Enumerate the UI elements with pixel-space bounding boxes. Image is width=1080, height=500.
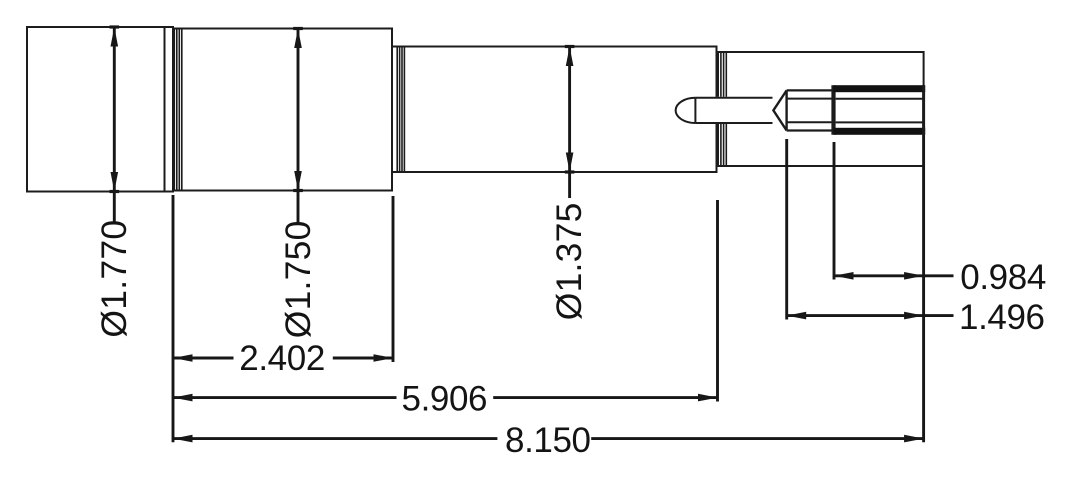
ridge lines at section 2/3 transition <box>397 47 404 173</box>
svg-text:2.402: 2.402 <box>239 339 325 378</box>
dim O1.770 vertical line <box>113 27 116 223</box>
dim 0.984 line <box>834 274 954 277</box>
dim 8.150 left arrowhead <box>173 435 193 443</box>
dim O1.750 top arrowhead <box>294 29 302 49</box>
dim 5.906 line segments <box>173 396 397 399</box>
dim O1.375 top arrowhead <box>566 47 574 67</box>
dim 8.150 line segments <box>173 437 497 440</box>
thread section shoulder (thick vertical) <box>831 85 835 135</box>
thread major diameter top band (thick) <box>834 85 926 92</box>
svg-text:Ø1.770: Ø1.770 <box>94 220 134 338</box>
svg-text:5.906: 5.906 <box>402 379 488 418</box>
pin body (small shaft with round cap) <box>695 98 772 123</box>
dim 2.402 left arrowhead <box>173 354 193 362</box>
extension line at x=786.7 (1.496 left) <box>785 139 788 320</box>
dim O1.375 apex ticks <box>565 45 575 48</box>
svg-text:8.150: 8.150 <box>505 421 591 460</box>
extension line at x=393 (2.402 right) <box>392 196 395 362</box>
dim O1.770 bottom arrowhead <box>111 172 119 192</box>
svg-text:Ø1.750: Ø1.750 <box>278 220 318 338</box>
body section 3 (cylinder O1.375) <box>392 47 717 173</box>
body section 4 (right cylinder) <box>717 52 924 166</box>
thread minor diameter lower line <box>836 121 924 123</box>
dim O1.750 bottom arrowhead <box>294 171 302 191</box>
dim O1.750 apex ticks <box>293 27 303 30</box>
dim 8.150 right arrowhead <box>904 435 924 443</box>
dim 0.984 left arrowhead <box>834 272 854 280</box>
extension line at x=717.5 (5.906 right) <box>716 200 719 402</box>
dim O1.750 vertical line <box>297 29 300 223</box>
dim O1.375 vertical line <box>568 47 571 199</box>
dim O1.770 top arrowhead <box>111 27 119 47</box>
dim 0.984 right arrowhead <box>904 272 924 280</box>
dim 2.402 right arrowhead <box>374 354 394 362</box>
dim 5.906 left arrowhead <box>173 394 193 402</box>
dim 1.496 right arrowhead <box>904 312 924 320</box>
svg-text:1.496: 1.496 <box>959 298 1045 337</box>
pin round cap <box>676 98 696 123</box>
dim 1.496 left arrowhead <box>787 312 807 320</box>
thread minor diameter upper line <box>836 98 924 100</box>
dim O1.770 apex ticks <box>110 25 120 28</box>
section 1 right face line <box>164 27 166 192</box>
ridge lines at section 3/4 transition (interrupted by pin) <box>718 52 726 166</box>
body section 1 (left cylinder O1.770) <box>27 27 173 192</box>
extension line at x=173 (left datum) <box>172 195 175 442</box>
mid thread section outline <box>787 90 834 130</box>
mid thread minor diameter lines <box>787 98 834 100</box>
body section 2 (cylinder O1.750) <box>173 29 392 191</box>
chamfer chevron of threaded stud <box>773 90 786 130</box>
svg-text:Ø1.375: Ø1.375 <box>549 202 589 320</box>
dim 5.906 right arrowhead <box>698 394 718 402</box>
pin cap flat line <box>694 98 696 123</box>
thread major diameter bottom band (thick) <box>834 128 926 135</box>
extension line at x=923.6 (8.150 right) <box>922 135 925 442</box>
pin body white fill (covers block edge behind) <box>692 97 774 124</box>
thread right end face <box>922 85 925 135</box>
dim 1.496 line <box>787 314 954 317</box>
extension line at x=834 (0.984 left) <box>833 142 836 280</box>
ridge lines at section 1/2 transition <box>174 29 182 191</box>
dim 2.402 line segments <box>173 357 234 360</box>
dim O1.375 bottom arrowhead <box>566 153 574 173</box>
svg-text:0.984: 0.984 <box>960 258 1046 297</box>
